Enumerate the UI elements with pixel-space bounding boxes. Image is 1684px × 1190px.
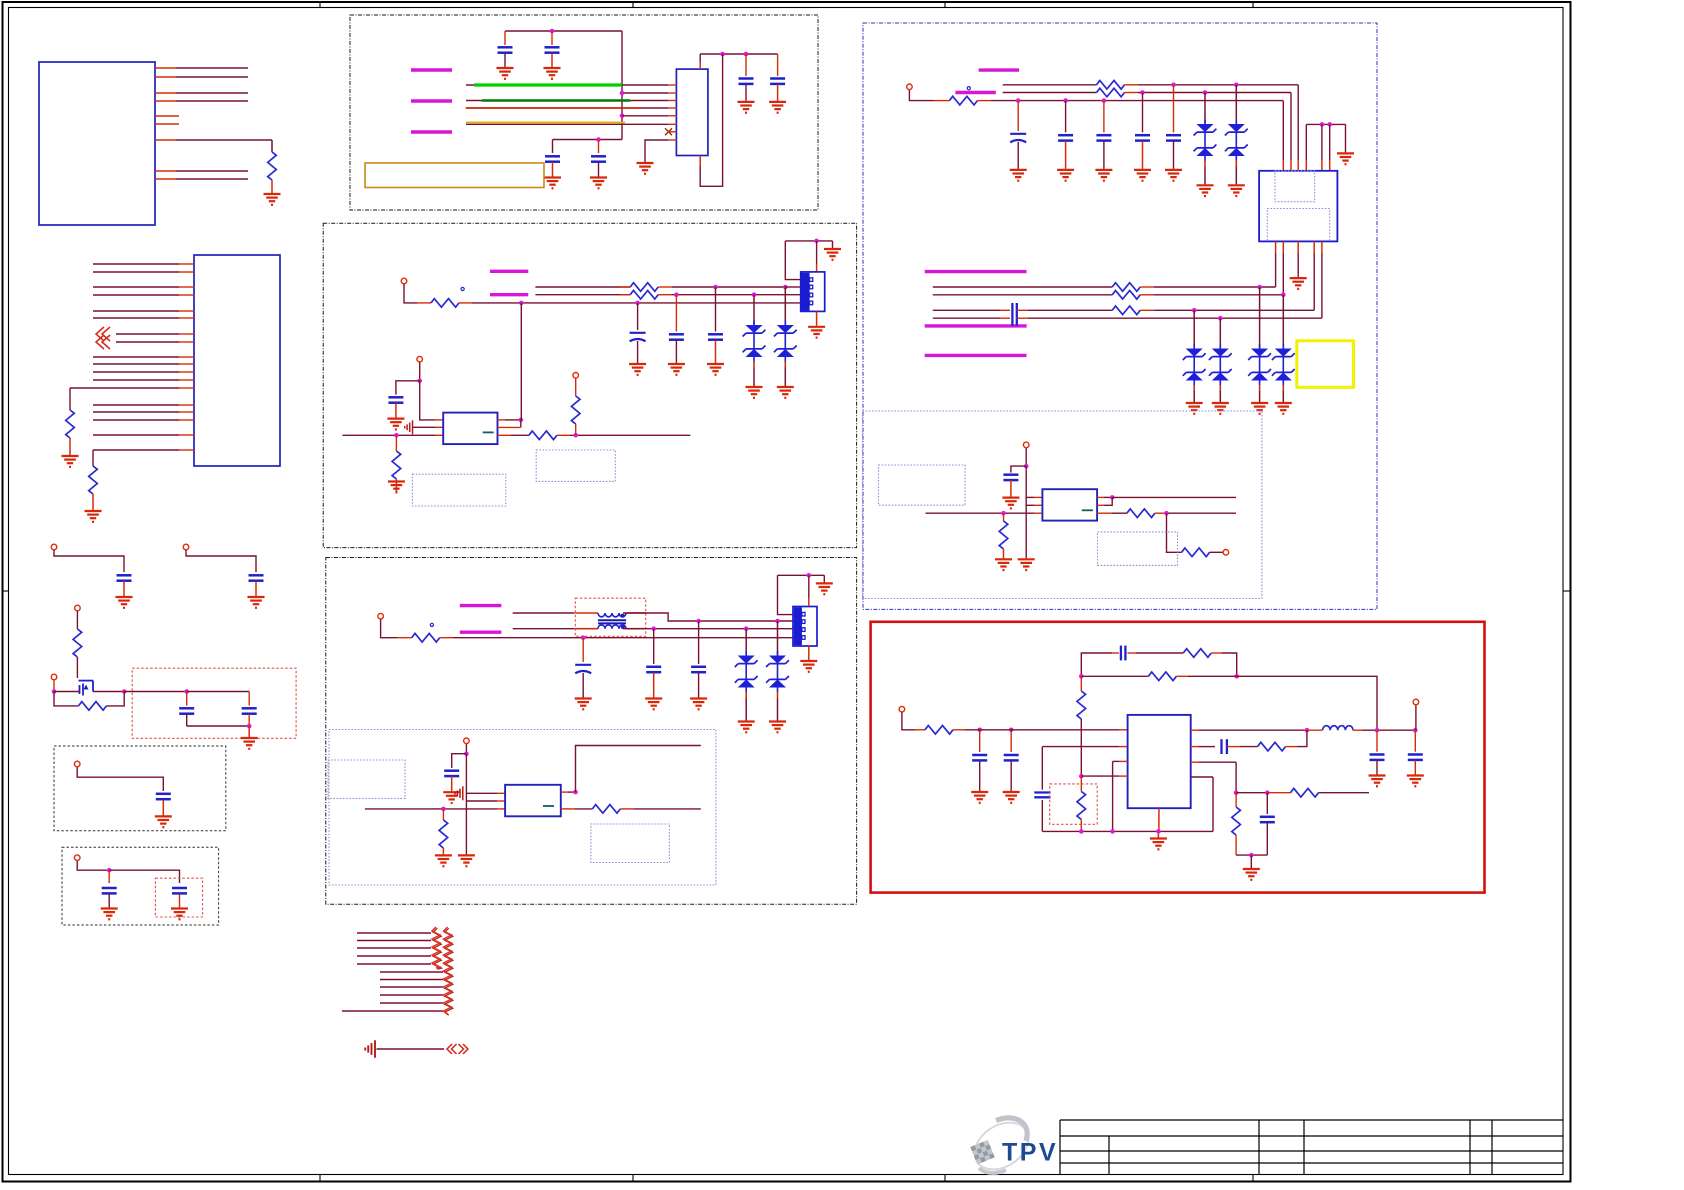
capacitor C16 (polarized) xyxy=(630,333,646,342)
ground below J1 xyxy=(808,327,825,338)
zone tick bottom 4 xyxy=(1252,1175,1254,1182)
ground below node I xyxy=(458,855,475,866)
capacitor C24 (polarized) xyxy=(1010,134,1026,143)
U3 pin stub y=93 xyxy=(668,92,676,94)
wire J3 top rail xyxy=(1306,123,1345,125)
capacitor C18 xyxy=(708,334,723,339)
wire conn3 bottom xyxy=(808,645,810,660)
junction on vertical 2 xyxy=(620,114,625,119)
wire sense rail xyxy=(1236,854,1267,856)
section box 3 border xyxy=(326,558,857,905)
zone tick left xyxy=(3,590,9,592)
node A xyxy=(52,689,57,694)
ground below C21 xyxy=(645,699,662,710)
inductor L2 xyxy=(1323,726,1353,730)
resistor R30 xyxy=(1291,788,1319,797)
junction conn rail xyxy=(814,239,819,244)
junction row1-C15 xyxy=(713,285,718,290)
wire C28 lead xyxy=(1173,85,1175,133)
wire xyxy=(442,848,444,854)
wire xyxy=(1157,831,1159,838)
net label (magenta) xyxy=(955,91,995,94)
ground below R2 xyxy=(62,456,79,467)
junction row2 zener xyxy=(1203,90,1208,95)
wire row1 xyxy=(1003,84,1097,86)
node L xyxy=(1001,511,1006,516)
resistor R17 xyxy=(1097,88,1125,97)
node M xyxy=(1164,511,1169,516)
terminal P13 xyxy=(1023,442,1029,448)
wire xyxy=(1025,448,1027,466)
wire C35 lead xyxy=(1376,730,1378,752)
U2 pin wire y=357 xyxy=(93,356,179,358)
U2 pin wire y=295 xyxy=(93,294,179,296)
wire xyxy=(1167,513,1182,552)
red dashed boxlet xyxy=(155,878,202,917)
zone tick bottom 3 xyxy=(944,1175,946,1182)
wire main row1 xyxy=(965,729,1119,731)
U2 pin stub y=311 xyxy=(179,310,194,312)
wire xyxy=(1210,551,1223,553)
wire U4 out1 xyxy=(498,419,506,421)
U3 pin stub y=115.8 xyxy=(668,115,676,117)
wire U4 out3 xyxy=(498,434,512,436)
resistor R4 xyxy=(73,629,82,657)
off-page chevrons xyxy=(447,1044,452,1054)
wire xyxy=(557,434,570,436)
wire xyxy=(271,180,273,193)
U1 pin wire y=93 xyxy=(155,92,176,94)
node U xyxy=(1413,728,1418,733)
node S xyxy=(1305,728,1310,733)
capacitor C23 xyxy=(444,771,459,776)
wire conn3 top pin xyxy=(808,575,810,598)
wire to chain2 line 3 xyxy=(380,986,443,988)
choke core xyxy=(598,619,626,621)
wire left pin2 xyxy=(1081,775,1119,777)
resistor R27 xyxy=(1077,691,1086,719)
wire xyxy=(598,140,600,154)
wire xyxy=(653,673,655,698)
junction row1 zener xyxy=(1234,83,1239,88)
wire xyxy=(1227,746,1240,748)
wire rowB xyxy=(933,294,1112,296)
junction top rail xyxy=(550,29,555,34)
op-amp U1 (main IC box) xyxy=(39,62,155,225)
capacitor C8 xyxy=(498,47,513,52)
wire main row3 xyxy=(365,808,435,810)
wire xyxy=(1415,705,1417,730)
capacitor C19 xyxy=(388,397,403,402)
wire xyxy=(108,894,110,908)
ground below C7 xyxy=(171,909,188,920)
terminal P1 xyxy=(51,544,57,550)
capacitor C35 xyxy=(1370,755,1385,760)
junction on vertical xyxy=(620,91,625,96)
net label (magenta) xyxy=(411,68,452,71)
junction row2 cap xyxy=(651,626,656,631)
wire gate xyxy=(54,691,80,693)
wire to chain2 line 5 xyxy=(380,1002,443,1004)
wire C25 lead xyxy=(1065,101,1067,133)
U2 pin wire y=420 xyxy=(93,419,179,421)
capacitor C10 xyxy=(545,156,560,161)
ground below R3 xyxy=(85,511,102,522)
zone tick bottom 1 xyxy=(319,1175,321,1182)
wire xyxy=(187,691,250,693)
resistor R29 xyxy=(1258,742,1286,751)
wire xyxy=(123,581,125,596)
wire xyxy=(162,800,164,816)
wire J3 bottom pin gnd xyxy=(1297,241,1299,253)
wire row1 to pin xyxy=(785,286,800,288)
marker xyxy=(967,87,970,90)
wire row2 xyxy=(535,294,630,296)
wire xyxy=(1155,512,1167,514)
wire xyxy=(92,494,94,510)
wire bottom rail xyxy=(187,725,250,727)
net label (magenta) xyxy=(925,270,1027,273)
ground below C25 xyxy=(1057,170,1074,181)
section box 2 border xyxy=(323,223,856,547)
node W xyxy=(1265,790,1270,795)
U4 pin1 stub xyxy=(435,419,443,421)
wire xyxy=(53,680,55,692)
wire xyxy=(698,673,700,698)
TVS diode pair D5/D6 xyxy=(735,651,758,698)
ground below C30 xyxy=(1002,498,1019,509)
wire zener lead xyxy=(1235,85,1237,124)
node J xyxy=(441,807,446,812)
U2 pin stub y=287 xyxy=(179,286,194,288)
junction rail3 b xyxy=(744,52,749,57)
ground below C32 xyxy=(1003,792,1020,803)
wire vertical xyxy=(465,754,467,855)
junction row3 b xyxy=(1063,98,1068,103)
wire rail up right xyxy=(1212,777,1214,831)
TVS diode pair D3/D4 xyxy=(774,321,797,368)
wire xyxy=(1103,141,1105,169)
node Q xyxy=(1234,674,1239,679)
capacitor C6 xyxy=(102,888,117,893)
ground below D3/D4 xyxy=(777,387,794,398)
net label (magenta) xyxy=(460,604,502,607)
terminal P5 xyxy=(74,761,80,767)
rail junction a xyxy=(1079,829,1084,834)
wire C14 lead xyxy=(675,295,677,332)
node B xyxy=(122,689,127,694)
red dashed box R28 xyxy=(1050,784,1098,824)
wire xyxy=(637,341,639,363)
wire xyxy=(186,550,256,572)
resistor chain 1 xyxy=(433,928,441,969)
svg-text:TPV: TPV xyxy=(1002,1139,1058,1167)
net label (magenta) xyxy=(925,324,1027,327)
ground below D15/D16 xyxy=(1212,403,1229,414)
wire row2 vert xyxy=(1041,747,1043,790)
wire U6 pin1 xyxy=(1026,496,1034,498)
off-page arrow 1 xyxy=(96,327,104,341)
resistor R19 xyxy=(1112,291,1140,300)
wire xyxy=(1235,167,1237,185)
wire xyxy=(979,761,981,791)
op-amp U3 (IC box) xyxy=(676,69,708,155)
ground below C10 xyxy=(544,178,561,189)
wire U7 right pin3 xyxy=(1191,761,1199,763)
connector U2 (box) xyxy=(194,255,280,466)
wire zener lead xyxy=(1282,295,1284,348)
wire xyxy=(77,767,163,791)
junction J3 rail b xyxy=(1327,122,1332,127)
junction U4 out xyxy=(519,418,524,423)
wire C21 lead xyxy=(653,629,655,664)
wire xyxy=(1267,792,1290,794)
wire loop pin2 xyxy=(1104,497,1112,505)
wire xyxy=(452,754,467,768)
wire vertical xyxy=(621,31,623,140)
wire xyxy=(1140,294,1154,296)
marker xyxy=(430,623,433,626)
TVS diode pair D13/D14 xyxy=(1183,344,1206,391)
ground below C23 xyxy=(443,792,460,803)
wire xyxy=(395,435,397,451)
wire U6 out1 xyxy=(1097,496,1104,498)
wire yellow signal xyxy=(466,121,625,123)
ground below C4 xyxy=(241,738,258,749)
wire xyxy=(1080,719,1082,730)
wire xyxy=(504,53,506,67)
wire C38 lead xyxy=(1266,793,1268,814)
wire xyxy=(1065,141,1067,169)
wire red signal xyxy=(466,107,640,109)
wire xyxy=(909,90,934,101)
U2 pin stub y=334 xyxy=(179,333,194,335)
wire to node P2 xyxy=(1080,730,1082,776)
terminal P9 xyxy=(573,373,579,379)
node O xyxy=(1009,728,1014,733)
U1 pin wire y=171 xyxy=(155,170,176,172)
wire C26 lead xyxy=(1103,101,1105,133)
wire rowA xyxy=(933,286,1112,288)
junction row2 cap xyxy=(1140,90,1145,95)
wire main row xyxy=(926,512,1035,514)
wire xyxy=(785,241,800,280)
TVS diode pair D19/D20 xyxy=(1272,344,1295,391)
ground below R13 xyxy=(435,855,452,866)
wire row2 xyxy=(1003,92,1097,94)
ground below D17/D18 xyxy=(1251,403,1268,414)
resistor R15 xyxy=(949,96,977,105)
wire xyxy=(1003,549,1005,558)
capacitor C4 xyxy=(242,708,257,713)
highlight box (yellow) xyxy=(1297,341,1354,388)
wire vertical to row3 xyxy=(520,303,522,420)
wire C20 lead xyxy=(582,638,584,662)
node X xyxy=(1249,853,1254,858)
wire xyxy=(377,1048,445,1050)
wire row3 xyxy=(521,302,800,304)
terminal P16 xyxy=(1413,699,1419,705)
ground at conn3 rail xyxy=(816,583,833,594)
junction row2 zener xyxy=(744,626,749,631)
wire xyxy=(1112,496,1236,498)
U3 pin stub y=100.5 xyxy=(668,100,676,102)
wire to chain2 line 4 xyxy=(380,994,443,996)
wire xyxy=(1125,84,1139,86)
net label (magenta) xyxy=(925,354,1027,357)
wire to chain1 line 4 xyxy=(357,955,431,957)
ground below C5 xyxy=(155,816,172,827)
net label (magenta) xyxy=(490,293,528,296)
wire rowC right xyxy=(1017,309,1028,311)
wire green pair 2 xyxy=(466,100,484,102)
junction rail 2 xyxy=(596,137,601,142)
wire bottom rail xyxy=(1042,830,1213,832)
zone tick right xyxy=(1563,590,1571,592)
capacitor C32 xyxy=(1004,755,1019,760)
wire xyxy=(442,809,444,820)
terminal P4 xyxy=(51,674,57,680)
U2 pin stub y=420 xyxy=(179,419,194,421)
wire row xyxy=(622,92,668,94)
wire C12 lead xyxy=(745,54,747,76)
wire xyxy=(575,379,577,397)
resistor R13 xyxy=(439,820,448,848)
junction rowA zener xyxy=(1257,285,1262,290)
node T xyxy=(1375,728,1380,733)
wire row2 into J3 xyxy=(1290,93,1292,161)
ground below C31 xyxy=(971,792,988,803)
wire vertical xyxy=(1025,466,1027,558)
junction row2-C14 xyxy=(674,292,679,297)
wire xyxy=(1003,513,1005,521)
ground below C18 xyxy=(707,364,724,375)
series capacitor C29 xyxy=(1012,303,1016,326)
marker xyxy=(461,287,464,290)
wire xyxy=(1266,823,1268,856)
resistor R3 xyxy=(89,466,98,494)
node K xyxy=(1024,464,1029,469)
resistor R8 xyxy=(630,290,658,299)
wire xyxy=(396,381,420,395)
U1 pin wire y=101 xyxy=(155,100,176,102)
U2 pin wire y=405 xyxy=(93,404,179,406)
ground below C20 xyxy=(575,699,592,710)
wire xyxy=(1376,760,1378,774)
wire xyxy=(1321,124,1323,160)
U2 pin wire y=380 xyxy=(93,379,179,381)
note box periwinkle 3 xyxy=(328,760,405,798)
wire xyxy=(255,581,257,596)
U3 pin stub y=131.8 xyxy=(668,131,676,133)
ground below C11 xyxy=(590,178,607,189)
wire row2 to choke xyxy=(513,628,575,630)
wire rowD left xyxy=(933,317,1000,319)
wire to chain1 line 2 xyxy=(357,940,431,942)
wire xyxy=(77,861,109,870)
ground below C35 xyxy=(1369,776,1386,787)
wire xyxy=(953,729,965,731)
junction row3 a xyxy=(1016,98,1021,103)
resistor chain 2 xyxy=(445,928,453,1015)
wire xyxy=(1204,167,1206,185)
note box (orange) xyxy=(365,163,544,188)
dotted box B xyxy=(62,847,219,925)
wire conn top rail xyxy=(785,240,832,242)
choke dot b xyxy=(621,625,625,629)
section box red border xyxy=(871,622,1485,893)
TVS diode pair D15/D16 xyxy=(1209,344,1232,391)
ground near U3 xyxy=(637,163,654,174)
ground below J2 xyxy=(800,661,817,672)
resistor R31 xyxy=(1232,807,1241,835)
wire xyxy=(551,53,553,67)
wire xyxy=(1286,746,1298,748)
snubber box (red dashed) xyxy=(132,668,296,738)
wire U7 right pin4 xyxy=(1191,776,1213,778)
wire J3 pinD down xyxy=(1313,241,1315,253)
op-amp U4 (IC box) xyxy=(443,413,497,445)
chassis ground (left facing) xyxy=(365,1040,375,1058)
zone tick top 1 xyxy=(319,2,321,8)
ground below C1 xyxy=(116,597,133,608)
wire source to node B xyxy=(93,691,124,693)
wire xyxy=(745,698,747,721)
resistor R24 xyxy=(925,726,953,735)
capacitor C21 xyxy=(646,667,661,672)
wire xyxy=(582,673,584,698)
wire xyxy=(465,744,467,754)
chassis ground at U5 pin1 xyxy=(455,786,463,800)
wire to chain2 line 2 xyxy=(380,979,443,981)
wire xyxy=(1080,819,1082,831)
capacitor C2 xyxy=(249,575,264,580)
wire conn3 top rail xyxy=(778,574,825,576)
wire to chain1 line 3 xyxy=(357,947,431,949)
ground below R1 xyxy=(264,194,281,205)
wire xyxy=(675,340,677,363)
wire xyxy=(440,637,453,639)
wire U3 bottom loop xyxy=(699,156,701,167)
wire J3 pinE down xyxy=(1321,241,1323,253)
section box 1 border xyxy=(350,15,818,210)
wire top rail xyxy=(505,30,622,32)
wire xyxy=(1041,800,1043,831)
terminal P10 xyxy=(378,613,384,619)
wire xyxy=(778,575,794,614)
inductor L1b (choke bottom) xyxy=(598,625,626,629)
resistor R25 xyxy=(1183,649,1211,658)
wire xyxy=(1140,309,1154,311)
wire C15 lead xyxy=(715,287,717,332)
wire zener lead xyxy=(1193,310,1195,348)
U2 pin stub y=388 xyxy=(179,387,194,389)
wire xyxy=(466,792,497,794)
wire xyxy=(777,84,779,101)
wire xyxy=(395,479,397,492)
wire zener1 lead xyxy=(753,295,755,325)
wire row1 xyxy=(535,286,630,288)
wire xyxy=(1017,142,1019,169)
wire xyxy=(1142,141,1144,169)
series capacitor C37 xyxy=(1222,739,1227,754)
capacitor C31 xyxy=(972,755,987,760)
junction row1 cap xyxy=(1171,83,1176,88)
junction rail3 a xyxy=(720,52,725,57)
terminal P14 xyxy=(1223,550,1229,556)
junction row3 c xyxy=(1102,98,1107,103)
wire node B to C3 xyxy=(124,691,187,693)
